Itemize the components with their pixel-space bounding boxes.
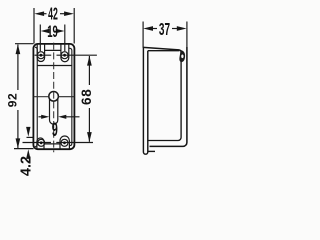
9 right arrow (points left at slot): [58, 115, 66, 119]
42 left arrow: [34, 11, 44, 16]
42 dim line: [43, 13, 47, 15]
9 left arrow (points right at slot): [41, 115, 49, 119]
front view inner rim contour left: [35, 47, 37, 147]
arrows: [16, 11, 187, 159]
19 left arrow: [41, 29, 50, 33]
side view rolled edge curl: [179, 50, 185, 62]
central keyhole circle: [49, 92, 59, 102]
37 dim: left extension line: [142, 22, 144, 48]
92 dim: top extension line (part top edge extended): [15, 43, 34, 45]
horizontal centerline through keyhole: left segment: [34, 96, 50, 98]
bottom-right hole center: [63, 141, 66, 144]
4.2 down arrow: [26, 127, 30, 137]
42 dim: right extension line: [73, 8, 75, 44]
37 dim line: [152, 28, 157, 30]
top-left mounting slot: [37, 44, 44, 61]
side view mounting plate: [143, 47, 147, 154]
svg-text:92: 92: [5, 93, 19, 108]
bottom-left hole: [38, 139, 45, 146]
svg-text:4.2: 4.2: [18, 156, 34, 176]
37 dim: right extension line above part: [186, 22, 188, 48]
37 left arrow: [143, 26, 153, 31]
37 right arrow: [177, 26, 187, 31]
side view inner right edge: [148, 62, 181, 141]
svg-text:19: 19: [47, 22, 58, 40]
top-right hole: [61, 52, 68, 59]
bottom flange edge line between slots: [44, 143, 60, 145]
19 dim: left extension line: [39, 25, 41, 52]
lens window top edge: [37, 65, 72, 67]
top-right hole center: [63, 54, 66, 57]
42 dim: left extension line: [33, 8, 35, 44]
4.2 up arrow: [26, 149, 30, 159]
svg-text:68: 68: [79, 88, 94, 105]
bottom-left mounting slot: [37, 138, 44, 149]
19 dim line stubs: [43, 31, 46, 32]
68 bottom arrow: [87, 132, 92, 142]
19 right arrow: [56, 29, 65, 33]
92 bottom arrow: [16, 138, 21, 148]
top-left hole center: [40, 54, 43, 57]
svg-text:9: 9: [52, 120, 58, 141]
front view inner rim contour right: [69, 48, 72, 145]
9 dim line left part: [39, 116, 45, 118]
92 top arrow: [16, 44, 21, 54]
42 right arrow: [64, 11, 74, 16]
side view outer top edge: [143, 47, 181, 52]
bottom-right mounting slot: [60, 136, 69, 149]
bottom-right hole crosshair / 68 bottom extension line: [56, 142, 93, 144]
svg-text:42: 42: [48, 3, 58, 23]
4.2 dim: slot-top reference line: [27, 136, 34, 138]
side view plate foot tab: [148, 150, 155, 152]
top-left hole: [37, 52, 44, 59]
top-right hole crosshair / 68 top extension line: [57, 54, 97, 56]
9 dim line right part: [63, 116, 80, 118]
dimension texts: [5, 3, 170, 176]
svg-text:37: 37: [159, 19, 170, 39]
68 dim line: [88, 56, 90, 85]
19 dim: right extension line: [64, 25, 66, 52]
horizontal centerline through keyhole: right segment: [58, 96, 74, 98]
top flange edge line between slots: [45, 49, 61, 51]
92 dim line: [17, 45, 19, 91]
vertical centerline (dashed): [53, 43, 55, 153]
side view outer right edge and bottom: [150, 47, 187, 146]
68 top arrow: [87, 56, 92, 66]
hole center dots: [40, 54, 67, 144]
bottom-left hole center: [40, 141, 43, 144]
central keyhole slot: [50, 99, 58, 125]
92 dim: bottom extension line (part bottom edge extended): [14, 148, 34, 150]
front view outer body outline: [33, 44, 74, 149]
top-left hole crosshair: [35, 54, 52, 56]
top-right mounting slot: [61, 44, 69, 61]
bottom-right hole: [61, 139, 68, 146]
side view inner top edge: [148, 50, 180, 52]
bottom-left hole crosshair / 4.2 reference line: [23, 142, 52, 144]
